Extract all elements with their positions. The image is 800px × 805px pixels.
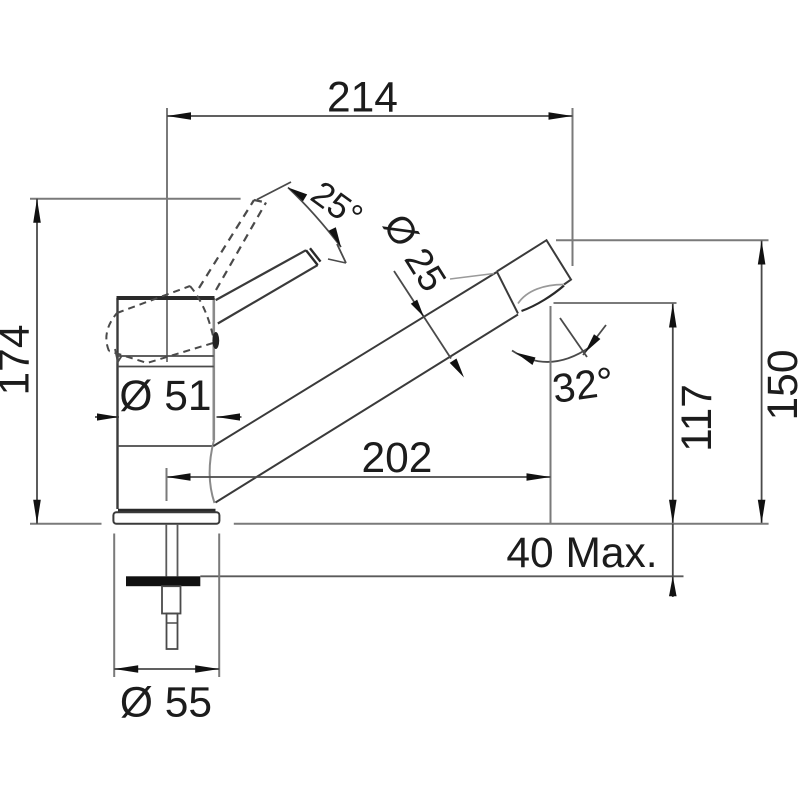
spout upper edge — [214, 272, 497, 446]
extension line 202 left — [166, 468, 168, 501]
extension line: 174 top — [30, 198, 241, 200]
dimension line 214 — [167, 115, 573, 117]
extension line: 174 bottom / countertop left — [30, 523, 102, 525]
body right fillet arc to base — [210, 440, 215, 503]
body seam upper ring — [118, 355, 214, 357]
dimension line 174 — [36, 199, 38, 524]
base plate top — [118, 509, 216, 512]
extension line: 214 right (spout head) — [572, 108, 574, 266]
countertop line — [234, 523, 769, 525]
dashed tilted cap outline — [106, 286, 213, 363]
dimension Ø51 arrows — [95, 416, 119, 418]
faucet body outline — [116, 298, 118, 509]
body seam lower — [118, 445, 214, 447]
dimension line 150 — [761, 241, 763, 524]
svg-text:174: 174 — [0, 325, 39, 396]
spout head outline — [497, 240, 571, 284]
svg-text:Ø 55: Ø 55 — [120, 680, 212, 727]
25 degree extension line (dashed lever) — [257, 182, 291, 200]
aerator outer lip — [522, 286, 565, 312]
extension line: spout head top (150) — [556, 239, 769, 241]
lever end cap — [306, 250, 318, 265]
threaded stem — [165, 524, 167, 576]
25 degree extension ticks (solid lever) — [337, 244, 346, 263]
dimension line Ø55 — [114, 668, 219, 670]
extension line: aerator vertical (202/117) — [550, 306, 552, 524]
lever pivot — [212, 332, 219, 349]
dimension 40 Max arrows — [672, 524, 674, 597]
spout lower edge — [216, 315, 519, 503]
extension line Ø55 right — [218, 534, 220, 678]
spout head seam — [497, 272, 518, 314]
dimension line 202 — [167, 476, 551, 478]
svg-text:32°: 32° — [550, 358, 617, 412]
Ø25 dimension line — [394, 271, 451, 359]
dimension line 117 — [672, 304, 674, 524]
dashed lever (upright position) — [199, 200, 266, 290]
extension line: 214 left (body centerline) — [166, 108, 168, 362]
extension line Ø55 left — [113, 534, 115, 678]
cap notch solid — [115, 349, 122, 362]
svg-text:40 Max.: 40 Max. — [506, 530, 657, 577]
leader line to head — [450, 274, 494, 280]
svg-text:202: 202 — [362, 435, 433, 482]
svg-text:Ø 51: Ø 51 — [119, 373, 211, 420]
32 degree radial tick — [560, 318, 587, 357]
svg-text:214: 214 — [327, 75, 398, 122]
svg-text:150: 150 — [760, 350, 800, 421]
washer — [126, 576, 200, 586]
washer reference line (40 Max lower) — [200, 575, 683, 577]
25 degree arc — [288, 188, 341, 248]
solid lever — [216, 250, 306, 300]
extension line: aerator height (117) — [554, 302, 677, 304]
svg-text:117: 117 — [674, 384, 721, 452]
32 degree arc — [512, 347, 590, 362]
aerator inner lip — [518, 285, 564, 304]
threaded stud tip — [167, 614, 178, 650]
base plate — [113, 512, 219, 524]
mounting nut — [162, 586, 181, 613]
